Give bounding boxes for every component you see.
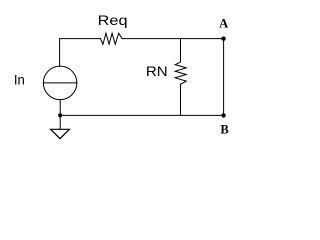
svg-text:RN: RN [146,63,168,79]
svg-text:B: B [220,123,228,137]
svg-text:Req: Req [98,12,128,28]
svg-text:In: In [14,72,25,88]
svg-text:A: A [219,17,228,31]
